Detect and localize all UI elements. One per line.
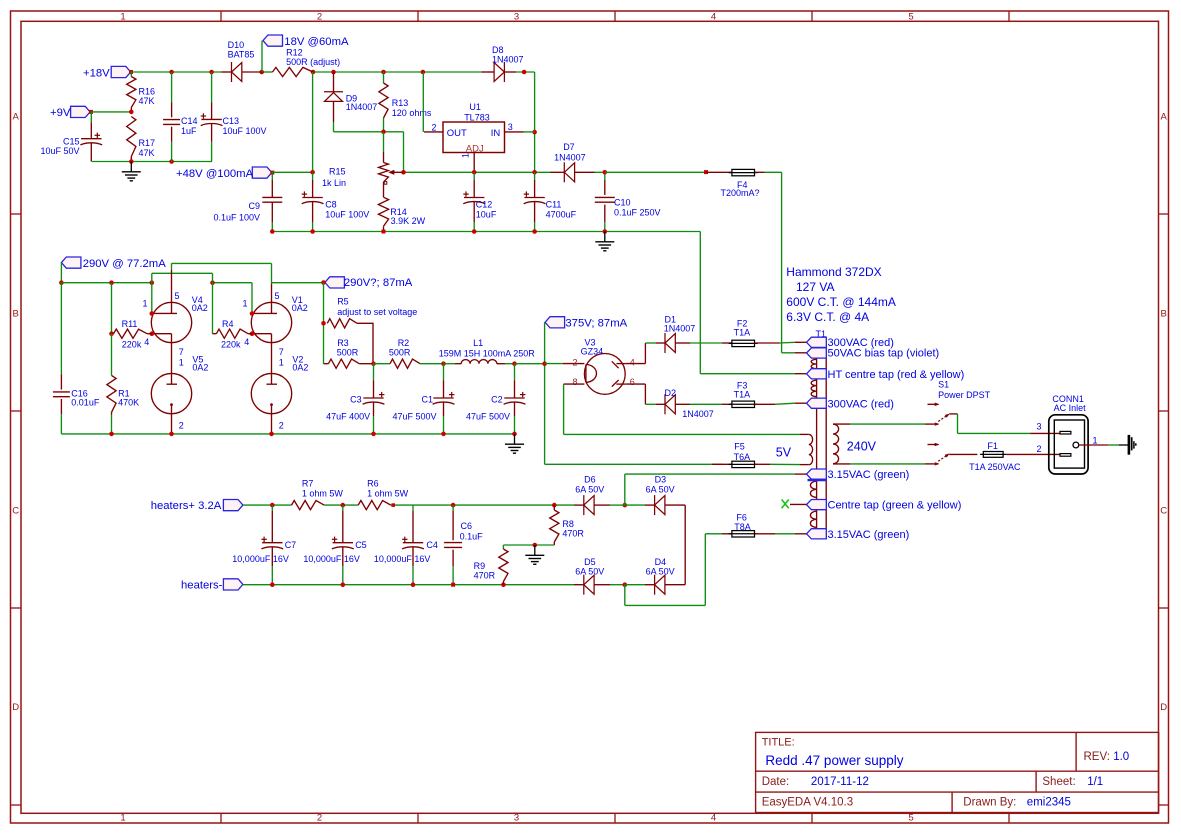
svg-text:C9: C9 [248, 201, 260, 211]
svg-text:Drawn By:: Drawn By: [963, 797, 1016, 809]
svg-text:18V @60mA: 18V @60mA [284, 36, 349, 48]
transformer 5V winding [809, 434, 813, 464]
pin labels CONN1 [1037, 421, 1098, 454]
wire V1 pin5 to 290V? flag [272, 282, 324, 284]
transformer 6.3V winding arcs [810, 481, 816, 527]
wire D5 node to F6 [625, 534, 722, 606]
svg-text:T6A: T6A [734, 452, 751, 462]
wire L1 node to 375V node [515, 363, 545, 365]
svg-text:3: 3 [1037, 421, 1042, 431]
net flag 290V @ 77.2mA [61, 257, 166, 270]
svg-text:159M 15H 100mA 250R: 159M 15H 100mA 250R [439, 348, 536, 358]
svg-text:47uF 500V: 47uF 500V [466, 411, 510, 421]
svg-text:6A 50V: 6A 50V [646, 567, 675, 577]
svg-text:3: 3 [514, 12, 519, 23]
svg-text:+9V: +9V [50, 107, 71, 119]
svg-text:Hammond 372DX: Hammond 372DX [786, 265, 881, 279]
pin label V5-2 [179, 421, 184, 431]
switch S1 labels [938, 380, 991, 401]
svg-text:120 ohms: 120 ohms [392, 108, 432, 118]
capacitor C9 [213, 172, 282, 231]
capacitor C6 [444, 505, 483, 585]
junction R14 bottom [382, 230, 386, 234]
wire heaters- rail [243, 584, 574, 586]
svg-text:EasyEDA V4.10.3: EasyEDA V4.10.3 [762, 797, 853, 809]
wire V3 pin6 to D2 [625, 384, 656, 404]
svg-text:2: 2 [279, 421, 284, 431]
svg-text:BAT85: BAT85 [228, 50, 255, 60]
junction C5 top [341, 503, 346, 508]
svg-text:S1: S1 [938, 380, 949, 390]
svg-text:500R (adjust): 500R (adjust) [286, 57, 340, 67]
diode D6 [574, 474, 610, 515]
junction C6 top [451, 503, 456, 508]
capacitor C16 [53, 283, 100, 434]
ground near R17 [122, 162, 141, 181]
svg-text:8: 8 [572, 377, 577, 387]
junction +48V flag [270, 171, 274, 175]
wire V4 pin1 riser [151, 273, 153, 313]
junction D5-D4 node [623, 582, 628, 587]
svg-text:5: 5 [175, 291, 180, 301]
triode V2 [251, 352, 308, 434]
resistor R17 [127, 117, 155, 162]
svg-text:3.15VAC (green): 3.15VAC (green) [828, 469, 910, 481]
wire D6 node up to 3.15VAC top [610, 474, 807, 505]
junction C8 top [310, 170, 315, 175]
svg-text:50VAC bias tap (violet): 50VAC bias tap (violet) [828, 348, 940, 360]
diode D1 [656, 315, 695, 353]
wire D8 to IN riser [534, 72, 536, 172]
svg-text:6.3V C.T. @ 4A: 6.3V C.T. @ 4A [786, 310, 869, 324]
svg-text:D6: D6 [584, 474, 596, 484]
junction gnd heater [533, 543, 538, 548]
capacitor C2 [466, 364, 525, 434]
wire 290V rail [61, 282, 252, 284]
fuse F6 [722, 512, 758, 537]
svg-text:1uF: 1uF [181, 126, 197, 136]
junction C6 bottom [451, 583, 455, 587]
diode D5 [574, 557, 610, 595]
resistor R16 [127, 72, 155, 112]
ground at C2 [505, 434, 524, 453]
svg-text:10uF 100V: 10uF 100V [223, 126, 267, 136]
terminal 50VAC bias tap [807, 348, 940, 360]
svg-text:47K: 47K [139, 96, 155, 106]
svg-text:C4: C4 [426, 540, 438, 550]
svg-text:4: 4 [144, 337, 149, 347]
svg-text:R9: R9 [474, 561, 486, 571]
transformer 240V winding [833, 424, 850, 464]
svg-text:Power DPST: Power DPST [938, 390, 991, 400]
svg-text:47K: 47K [139, 148, 155, 158]
wire V3 pin4 to D1 [625, 343, 656, 364]
svg-text:D2: D2 [665, 388, 677, 398]
capacitor C8 [302, 172, 370, 231]
svg-text:0.1uF 100V: 0.1uF 100V [213, 213, 260, 223]
junction V4 pin1 column [150, 280, 155, 285]
svg-text:C: C [1160, 505, 1167, 516]
switch S1 pole A [928, 403, 958, 426]
svg-text:2: 2 [179, 421, 184, 431]
svg-text:+48V @100mA: +48V @100mA [176, 168, 254, 180]
wire S1 pole A to inlet pin3 [958, 414, 1060, 434]
junction C7 top [270, 503, 275, 508]
svg-text:1N4007: 1N4007 [682, 409, 714, 419]
svg-text:5: 5 [908, 12, 913, 23]
svg-text:R12: R12 [286, 47, 303, 57]
svg-text:1: 1 [120, 813, 125, 824]
svg-text:R2: R2 [398, 338, 410, 348]
svg-text:R5: R5 [337, 296, 349, 306]
fuse F4 [706, 169, 765, 197]
svg-text:3.15VAC (green): 3.15VAC (green) [828, 529, 910, 541]
junction IN pin [532, 130, 537, 135]
svg-text:T1A 250VAC: T1A 250VAC [969, 462, 1021, 472]
junction V1 pin4 [250, 331, 255, 336]
resistor R6 [358, 478, 408, 509]
svg-text:1: 1 [242, 299, 247, 309]
net flag 290V?; 87mA [325, 277, 413, 289]
diode D8 [482, 45, 535, 82]
svg-text:470K: 470K [118, 398, 139, 408]
junction R6 right [391, 503, 395, 507]
svg-text:R3: R3 [337, 338, 349, 348]
terminal 3.15VAC top [807, 469, 910, 481]
resistor R2 [374, 338, 444, 369]
label 5V [776, 445, 792, 459]
svg-text:OUT: OUT [447, 128, 467, 139]
svg-text:TL783: TL783 [464, 112, 490, 122]
title block texts [762, 737, 1129, 809]
junction V2 pin2 [269, 432, 274, 437]
svg-text:R8: R8 [562, 519, 574, 529]
svg-text:3: 3 [514, 813, 519, 824]
svg-text:C12: C12 [476, 200, 493, 210]
capacitor C11 [524, 172, 577, 231]
svg-text:1N4007: 1N4007 [664, 324, 696, 334]
capacitor C4 [374, 505, 438, 585]
svg-text:1/1: 1/1 [1087, 776, 1103, 788]
wire +48V rail [272, 171, 550, 173]
svg-text:C10: C10 [614, 198, 631, 208]
svg-text:R11: R11 [122, 319, 138, 329]
svg-text:T1A: T1A [734, 328, 751, 338]
junction +9V [89, 110, 93, 114]
diode D4 [625, 557, 685, 595]
no-connect X at centre tap [782, 500, 807, 509]
junction V1 column rail [210, 280, 215, 285]
terminal centre tap [807, 500, 962, 512]
diode D2 [656, 388, 714, 419]
transformer T1 label [816, 329, 827, 339]
diode D9 [324, 72, 377, 132]
diode D3 [625, 474, 685, 515]
svg-text:D10: D10 [228, 40, 245, 50]
transformer T1 core lines [817, 337, 827, 539]
capacitor C12 [463, 172, 497, 231]
svg-text:D3: D3 [655, 474, 667, 484]
svg-text:Centre tap (green & yellow): Centre tap (green & yellow) [828, 500, 962, 512]
junction R15 wiper node [401, 170, 406, 175]
junction D6-D3 node [623, 503, 628, 508]
triode V1 [251, 284, 308, 352]
junction R5 left [321, 321, 326, 326]
triode V5 [151, 352, 208, 434]
svg-text:emi2345: emi2345 [1027, 797, 1071, 809]
connector CONN1 labels [1052, 394, 1086, 413]
annotation Hammond [786, 265, 896, 324]
svg-text:2017-11-12: 2017-11-12 [811, 776, 869, 788]
wire 48V riser from U1 node [312, 72, 314, 172]
junction D9 top [331, 70, 336, 75]
svg-text:0A2: 0A2 [292, 362, 308, 372]
wire F5 to 5V bottom [770, 463, 809, 465]
svg-text:2: 2 [317, 12, 322, 23]
junction 290V flag riser [59, 280, 64, 285]
svg-text:GZ34: GZ34 [581, 347, 604, 357]
net flag 375V; 87mA [545, 317, 628, 330]
svg-text:1k Lin: 1k Lin [322, 178, 346, 188]
svg-text:5: 5 [275, 291, 280, 301]
svg-text:0.1uF 250V: 0.1uF 250V [614, 208, 661, 218]
junction L1-C2 node [512, 361, 517, 366]
svg-text:6A 50V: 6A 50V [575, 485, 604, 495]
resistor R8 [550, 505, 585, 545]
junction C3 bottom [371, 432, 376, 437]
svg-text:C7: C7 [285, 540, 297, 550]
junction R13 top [381, 70, 386, 75]
svg-text:1: 1 [279, 357, 284, 367]
junction C1 bottom [441, 432, 446, 437]
wire heaters+ rail [243, 504, 574, 506]
junction C11 top [532, 170, 537, 175]
svg-text:127 VA: 127 VA [796, 280, 834, 294]
svg-text:C8: C8 [325, 200, 337, 210]
wire to V3 pin2 [545, 363, 585, 365]
svg-text:U1: U1 [469, 102, 481, 112]
svg-text:C2: C2 [491, 395, 503, 405]
wire-end marker at F4 [704, 170, 708, 174]
junction after D8 [522, 70, 527, 75]
wire V1 pin1 riser [251, 283, 253, 314]
svg-text:2: 2 [572, 357, 577, 367]
potentiometer R15 [322, 132, 404, 197]
junction U1 OUT riser [421, 70, 426, 75]
svg-text:C6: C6 [461, 521, 473, 531]
svg-text:3: 3 [508, 122, 513, 132]
svg-text:6A 50V: 6A 50V [575, 567, 604, 577]
junction V5 pin2 [169, 432, 174, 437]
svg-text:C14: C14 [181, 116, 198, 126]
terminal 3.15VAC bottom [807, 529, 910, 541]
capacitor C5 [303, 505, 366, 585]
rectifier V3 GZ34 [572, 338, 634, 395]
svg-text:375V; 87mA: 375V; 87mA [565, 317, 627, 329]
junction 290V? flag [321, 280, 326, 285]
net flag heaters+ [151, 500, 243, 513]
svg-text:2: 2 [1037, 444, 1042, 454]
svg-text:4: 4 [711, 12, 716, 23]
svg-text:1 ohm 5W: 1 ohm 5W [367, 489, 409, 499]
svg-text:R7: R7 [302, 478, 314, 488]
svg-text:0A2: 0A2 [192, 303, 208, 313]
svg-text:T1A: T1A [734, 390, 751, 400]
svg-text:R6: R6 [367, 478, 379, 488]
svg-text:R13: R13 [392, 98, 409, 108]
svg-text:ADJ: ADJ [466, 143, 484, 154]
svg-text:heaters+ 3.2A: heaters+ 3.2A [151, 500, 222, 512]
wire R4 column [212, 283, 214, 334]
title block box [756, 732, 1159, 812]
resistor R14 [378, 197, 425, 231]
svg-text:D7: D7 [563, 142, 575, 152]
svg-text:4: 4 [630, 357, 635, 367]
svg-text:C11: C11 [546, 200, 562, 210]
net flag heaters- [181, 579, 243, 592]
svg-text:A: A [13, 111, 20, 122]
svg-text:T200mA?: T200mA? [721, 188, 760, 198]
svg-text:470R: 470R [562, 529, 584, 539]
svg-text:Date:: Date: [762, 776, 790, 788]
fuse F5 [712, 442, 770, 468]
svg-text:heaters-: heaters- [181, 579, 223, 591]
svg-text:290V?; 87mA: 290V?; 87mA [344, 277, 413, 289]
triode V4 [151, 270, 208, 352]
junction R17 bottom [129, 159, 134, 164]
junction C7 bottom [270, 582, 275, 587]
junction C10 bottom [603, 229, 608, 234]
svg-text:7: 7 [279, 347, 284, 357]
wire 290V? riser to R3/R5 [323, 283, 325, 364]
connector CONN1 body [1049, 415, 1088, 474]
svg-text:B: B [13, 308, 19, 319]
svg-text:10,000uF 16V: 10,000uF 16V [374, 554, 431, 564]
junction R2-L1 node [441, 361, 446, 366]
wire C10 to F4 [605, 171, 706, 173]
junction V4 pin4 [150, 331, 155, 336]
svg-text:240V: 240V [847, 440, 877, 454]
svg-text:C15: C15 [63, 137, 80, 147]
svg-text:TITLE:: TITLE: [762, 737, 795, 749]
svg-text:290V @ 77.2mA: 290V @ 77.2mA [83, 258, 167, 270]
svg-text:D5: D5 [584, 557, 596, 567]
svg-text:1N4007: 1N4007 [554, 152, 586, 162]
diode D10 [222, 40, 262, 82]
wire D3-D4 link [684, 505, 686, 585]
junction V1 pin1 [250, 311, 255, 316]
wire 240V bottom to S1 [850, 463, 935, 465]
wire gnd rail top section [272, 231, 700, 233]
svg-text:0A2: 0A2 [192, 362, 208, 372]
junction R1 column top [109, 280, 114, 285]
svg-text:C1: C1 [421, 395, 433, 405]
svg-text:10uF 100V: 10uF 100V [325, 209, 369, 219]
svg-text:R16: R16 [139, 86, 156, 96]
junction C4 bottom [411, 582, 416, 587]
wire inlet pin1 to chassis [1079, 444, 1128, 446]
terminal 300VAC top [807, 337, 894, 349]
svg-text:D: D [1160, 702, 1167, 713]
junction C14 bottom [169, 159, 174, 164]
junction C12 bottom [472, 229, 477, 234]
label 240V [847, 440, 877, 454]
svg-text:1: 1 [179, 357, 184, 367]
resistor R9 [474, 549, 508, 585]
pin labels V1 [242, 291, 283, 367]
wire F4 to 50VAC tap [765, 172, 807, 352]
junction R11 left [109, 331, 114, 336]
net flag 18V @60mA [263, 35, 349, 48]
capacitor C7 [232, 505, 296, 585]
wire 375V to F5 [545, 463, 722, 465]
junction C10 top [603, 170, 608, 175]
junction C13 top [209, 70, 214, 75]
capacitor C15 [40, 112, 102, 162]
wire D5 to node [610, 584, 625, 586]
wire F1 to inlet pin2 [1006, 453, 1059, 455]
svg-text:1N4007: 1N4007 [492, 55, 524, 65]
transformer HV winding arcs [811, 359, 816, 396]
terminal HT centre tap [807, 369, 965, 382]
svg-text:7: 7 [179, 347, 184, 357]
svg-text:500R: 500R [337, 347, 359, 357]
svg-text:6: 6 [630, 377, 635, 387]
wire R11 column [111, 283, 113, 334]
svg-text:1.0: 1.0 [1113, 751, 1129, 763]
wire +9V to R17 node [91, 111, 131, 113]
svg-text:0.1uF: 0.1uF [460, 531, 484, 541]
svg-text:REV:: REV: [1084, 751, 1110, 763]
net flag +18V [83, 66, 131, 79]
fuse F2 [722, 318, 758, 346]
capacitor C3 [326, 364, 384, 434]
junction C11 bottom [532, 229, 537, 234]
svg-text:B: B [1161, 308, 1167, 319]
wire 290V gnd rail [61, 433, 514, 435]
svg-text:C: C [12, 505, 19, 516]
svg-text:adjust to set voltage: adjust to set voltage [337, 307, 417, 317]
wire D2 to F3 [690, 403, 722, 405]
junction ADJ/C12 top [472, 170, 477, 175]
resistor R3 [324, 338, 374, 369]
svg-text:IN: IN [491, 128, 501, 139]
chassis ground [1128, 435, 1136, 455]
resistor R13 [379, 72, 432, 132]
svg-text:300VAC (red): 300VAC (red) [828, 398, 894, 410]
junction R13 bottom [381, 130, 386, 135]
net flag +48V @100mA [176, 167, 272, 180]
svg-text:0A2: 0A2 [292, 303, 308, 313]
fuse F3 [722, 381, 758, 408]
svg-text:L1: L1 [473, 338, 483, 348]
svg-text:10,000uF 16V: 10,000uF 16V [303, 554, 360, 564]
svg-text:+18V: +18V [83, 68, 110, 80]
svg-text:47uF 500V: 47uF 500V [393, 411, 437, 421]
svg-text:AC Inlet: AC Inlet [1054, 403, 1087, 413]
svg-text:0.01uF: 0.01uF [71, 398, 100, 408]
svg-text:2: 2 [432, 122, 437, 132]
resistor R12 [273, 47, 341, 76]
resistor R5 [327, 296, 417, 363]
diode D7 [550, 142, 605, 182]
svg-text:F1: F1 [987, 441, 998, 451]
junction R16/R17 [129, 110, 134, 115]
wire V3 pin8 to 5V top [564, 384, 809, 434]
svg-text:6A 50V: 6A 50V [646, 485, 675, 495]
svg-text:1: 1 [1093, 436, 1098, 446]
junction V4 pin1 [150, 311, 155, 316]
